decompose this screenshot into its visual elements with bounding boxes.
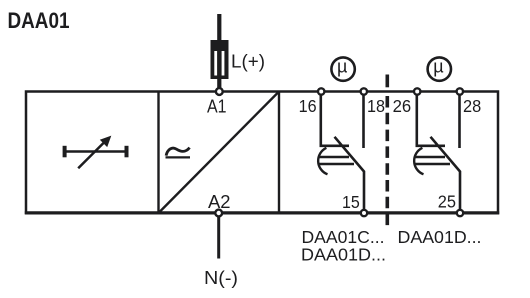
svg-text:µ: µ [337,56,347,76]
contact 2: delay symbol [414,148,450,175]
device box bottom edge (thicker) [25,211,499,214]
timing function symbol µ (left) [331,56,354,80]
terminal 16 [318,88,324,94]
svg-text:18: 18 [367,96,385,116]
AC/DC supply symbol [166,148,191,158]
svg-text:L(+): L(+) [231,51,265,71]
svg-text:DAA01D...: DAA01D... [301,245,386,265]
diagonal conversion line [159,92,280,214]
section divider right [278,92,280,214]
contact 2: movable arm [431,137,461,210]
svg-text:26: 26 [393,96,412,116]
terminal A1 [216,88,223,95]
svg-text:DAA01D...: DAA01D... [398,227,482,247]
device box [26,92,498,214]
dashed separator line [385,96,389,226]
terminal A2 [215,210,222,217]
svg-text:25: 25 [438,192,456,212]
svg-text:28: 28 [463,96,481,116]
svg-text:N(-): N(-) [204,268,238,288]
potentiometer (adjustable time setting) [63,136,129,169]
svg-text:16: 16 [299,96,317,116]
terminal 15 [361,210,367,216]
fuse F1 [211,14,229,88]
timing function symbol µ (right) [428,56,451,80]
terminal 26 [414,88,420,94]
contact 1: movable arm [335,137,365,210]
svg-text:A1: A1 [207,97,227,117]
contact 2: wire 28 [458,95,461,148]
svg-text:µ: µ [433,56,443,76]
section divider left [157,92,159,214]
contact 1: wire 16 [321,95,349,146]
wire N [217,217,220,259]
dashed separator line (top dash) [385,75,389,88]
svg-text:DAA01: DAA01 [8,8,70,33]
contact 1: delay symbol [318,148,354,175]
terminal 25 [457,210,463,216]
terminal 18 [361,88,367,94]
terminal 28 [457,88,463,94]
contact 2: wire 26 [417,95,445,146]
svg-text:15: 15 [342,192,360,212]
contact 1: wire 18 [362,95,365,148]
